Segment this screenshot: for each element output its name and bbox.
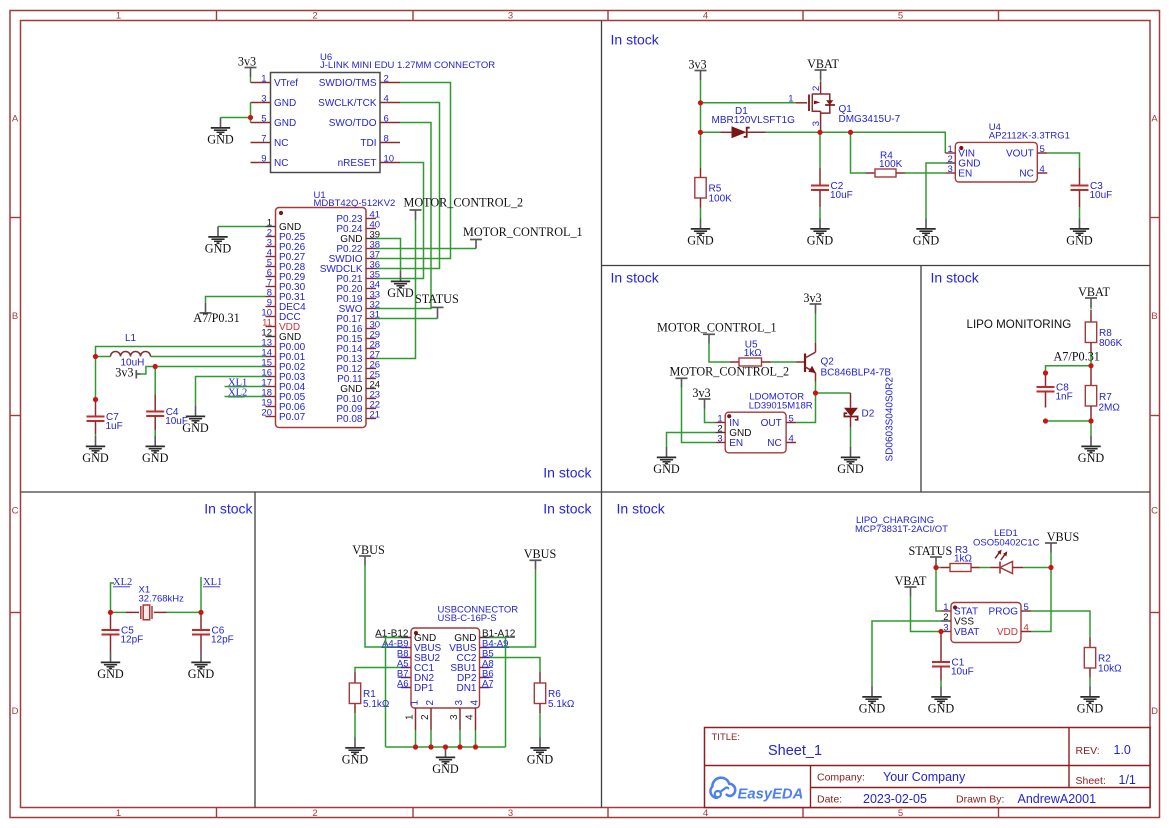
ground at U4 — [913, 219, 940, 248]
junction USB ground bus — [428, 744, 433, 749]
MCP73831 pin 5 PROG — [989, 602, 1031, 618]
wire LDO GND down — [667, 433, 716, 448]
svg-text:Drawn By:: Drawn By: — [956, 794, 1004, 806]
svg-text:1.0: 1.0 — [1114, 743, 1131, 757]
svg-text:5: 5 — [789, 414, 794, 425]
LDOMOTOR pin 4 NC — [767, 434, 796, 450]
svg-text:5.1kΩ: 5.1kΩ — [548, 699, 575, 710]
svg-text:1uF: 1uF — [106, 421, 123, 432]
junction VBAT C1 node — [938, 629, 943, 634]
svg-text:3v3: 3v3 — [688, 57, 706, 71]
svg-text:GND: GND — [82, 451, 109, 465]
svg-text:NC: NC — [274, 138, 288, 149]
wire nRESET net — [376, 163, 424, 279]
svg-text:DN1: DN1 — [456, 683, 476, 694]
svg-text:3: 3 — [717, 434, 722, 445]
junction C8 top — [1043, 370, 1048, 375]
junction R4 node — [848, 130, 853, 135]
svg-text:EasyEDA: EasyEDA — [738, 787, 804, 803]
ground at C5 — [97, 652, 124, 681]
svg-text:SWCLK/TCK: SWCLK/TCK — [318, 98, 377, 109]
svg-text:3v3: 3v3 — [692, 386, 710, 400]
resistor R3 — [941, 545, 980, 572]
power flag 3v3 at LDO — [692, 386, 710, 409]
wire XL2 down — [111, 583, 115, 612]
LED LED1 OSO50402C1C — [973, 528, 1040, 574]
svg-text:6: 6 — [384, 113, 389, 124]
U1 pin 6 P0.29 — [266, 268, 306, 284]
capacitor C3 — [1071, 168, 1113, 207]
svg-text:VBUS: VBUS — [524, 547, 557, 561]
U6 pin 6 SWO/TDO — [329, 113, 400, 129]
wire to D1 anode — [701, 131, 721, 133]
power flag VBAT monitoring — [1078, 285, 1110, 310]
svg-text:GND: GND — [1077, 702, 1104, 716]
svg-text:GND: GND — [432, 762, 459, 776]
U4 pin 5 VOUT — [1006, 144, 1047, 160]
wire XL1 down — [200, 577, 202, 612]
module U1 MDBT42Q-512KV2 box — [276, 190, 396, 428]
svg-text:4: 4 — [789, 434, 794, 445]
junction crystal right — [198, 610, 203, 615]
wire 3v3 to Q2 collector — [815, 314, 817, 344]
U1 pin 21 P0.08 — [336, 410, 380, 426]
net label XL2 — [228, 388, 247, 399]
net flag MOTOR_CONTROL_2 at U1 — [404, 195, 524, 219]
U6 pin 9 NC — [251, 153, 289, 169]
ground at LDO — [653, 447, 680, 476]
USB pin B6 DP2 — [457, 669, 494, 685]
svg-text:1/1: 1/1 — [1119, 773, 1136, 787]
junction Q2 emitter node — [813, 390, 818, 395]
svg-text:12pF: 12pF — [211, 635, 234, 646]
section divider vertical right — [920, 266, 922, 493]
wire C3 to ground — [1079, 207, 1081, 219]
junction VBUS node — [1048, 565, 1053, 570]
svg-text:PROG: PROG — [989, 607, 1019, 618]
svg-text:3: 3 — [943, 623, 948, 634]
svg-text:EN: EN — [958, 169, 972, 180]
svg-text:In stock: In stock — [204, 501, 253, 517]
svg-text:GND: GND — [1066, 234, 1093, 248]
text In stock — [611, 270, 660, 286]
svg-text:A7/P0.31: A7/P0.31 — [1054, 350, 1100, 364]
wire Q2 emitter down — [815, 382, 817, 394]
wire USB ground bus — [386, 746, 506, 748]
svg-text:In stock: In stock — [543, 465, 592, 481]
MCP73831 pin 3 VBAT — [941, 623, 979, 639]
U1 pin 17 P0.04 — [261, 378, 305, 394]
text In stock — [617, 501, 666, 517]
svg-text:2023-02-05: 2023-02-05 — [863, 792, 927, 806]
resistor U5 — [730, 339, 771, 366]
U1 pin 34 P0.20 — [336, 280, 380, 296]
net flag STATUS at U1 — [415, 292, 459, 319]
power flag 3v3 power section — [688, 57, 706, 80]
U1 pin 23 P0.10 — [336, 390, 380, 406]
ground at C3 — [1066, 219, 1093, 248]
connector U6 J-LINK box — [271, 52, 496, 173]
wire C8 bottom — [1045, 419, 1047, 421]
wire U1 pin15 P0.02 — [155, 366, 265, 368]
svg-text:GND: GND — [687, 234, 714, 248]
ground at U1 pin16 — [182, 406, 209, 435]
junction C2 node — [817, 130, 822, 135]
USB pin A8 SBU1 — [450, 659, 493, 675]
svg-text:D2: D2 — [862, 409, 875, 420]
capacitor C1 — [932, 632, 974, 681]
section divider vertical bottom left — [254, 492, 256, 808]
USB pin B7 DN2 — [397, 669, 435, 685]
ground at VSS — [859, 687, 886, 716]
junction 3v3 gate node — [698, 100, 703, 105]
USB pin A7 DN1 — [456, 679, 493, 695]
USB shell pin 4 — [465, 700, 481, 731]
wire rail — [820, 131, 851, 133]
U1 pin 4 P0.27 — [266, 248, 306, 264]
wire C2 to ground — [819, 207, 821, 219]
row ticks left — [10, 218, 21, 613]
U1 pin 30 P0.16 — [336, 320, 380, 336]
column numbers top — [116, 11, 903, 22]
wire R4 to U4 EN — [905, 172, 945, 174]
U1 pin 27 P0.13 — [336, 350, 380, 366]
svg-text:LIPO MONITORING: LIPO MONITORING — [967, 318, 1072, 331]
svg-text:GND: GND — [182, 421, 209, 435]
U1 pin 33 P0.19 — [336, 290, 380, 306]
svg-text:5: 5 — [1024, 602, 1029, 613]
svg-text:1: 1 — [116, 808, 121, 819]
wire R6 to ground — [539, 713, 541, 738]
U1 pin 40 P0.24 — [336, 220, 380, 236]
svg-text:D: D — [12, 706, 19, 717]
junction C7 top — [93, 397, 98, 402]
svg-text:21: 21 — [370, 410, 381, 421]
MCP73831 pin 2 VSS — [941, 612, 974, 628]
U1 pin 39 GND — [340, 230, 380, 246]
svg-text:A: A — [1151, 114, 1158, 125]
U1 pin 7 P0.30 — [266, 278, 306, 294]
wire MOTOR_CONTROL_1 to U5 — [709, 344, 730, 363]
resistor R7 2MOhm — [1085, 366, 1120, 420]
resistor R1 — [349, 672, 390, 713]
svg-text:4: 4 — [703, 808, 708, 819]
svg-text:10kΩ: 10kΩ — [1098, 663, 1122, 674]
svg-text:In stock: In stock — [931, 270, 980, 286]
junction divider node — [1088, 363, 1093, 368]
U1 pin 32 SWO — [339, 300, 380, 316]
svg-text:Q2: Q2 — [821, 357, 835, 368]
text LIPO MONITORING — [967, 318, 1072, 331]
resistor R8 — [1085, 310, 1122, 352]
power flag VBAT at Q1 — [807, 57, 839, 82]
row letters right — [1151, 114, 1158, 718]
power flag VBUS left — [352, 543, 385, 566]
svg-text:Your Company: Your Company — [883, 770, 966, 784]
svg-text:4: 4 — [384, 93, 389, 104]
svg-text:B: B — [12, 311, 18, 322]
U6 pin 7 NC — [251, 133, 289, 149]
svg-text:MDBT42Q-512KV2: MDBT42Q-512KV2 — [314, 198, 396, 209]
diode D1 MBR120VLSFT1G — [712, 106, 796, 138]
resistor R5 — [695, 168, 732, 208]
svg-text:3: 3 — [948, 164, 953, 175]
svg-text:Sheet_1: Sheet_1 — [768, 743, 822, 759]
row letters left — [12, 114, 19, 718]
wire bus to USB GND left — [386, 638, 402, 748]
svg-text:GND: GND — [97, 667, 124, 681]
wire 3v3 to Q1 gate — [701, 102, 797, 104]
text In stock — [611, 32, 660, 48]
svg-text:2: 2 — [425, 700, 436, 706]
wire VBUS down — [1050, 553, 1052, 568]
svg-text:P0.07: P0.07 — [279, 412, 306, 423]
svg-text:5: 5 — [261, 113, 266, 124]
ground at C1 — [928, 687, 955, 716]
svg-text:3v3: 3v3 — [803, 291, 821, 305]
svg-text:12pF: 12pF — [121, 635, 144, 646]
svg-text:VBAT: VBAT — [954, 627, 979, 638]
U1 pin 5 P0.28 — [266, 258, 306, 274]
wire U1 pin31 P0.17 STATUS — [376, 318, 438, 320]
svg-text:2: 2 — [943, 612, 948, 623]
svg-text:GND: GND — [205, 242, 232, 256]
wire U1 pin38 to MOTOR_CONTROL_1 — [376, 248, 476, 250]
section divider vertical center — [601, 21, 603, 808]
wire node to C8 — [1046, 366, 1092, 373]
svg-text:GND: GND — [207, 133, 234, 147]
svg-text:STATUS: STATUS — [415, 292, 459, 306]
svg-text:7: 7 — [261, 133, 266, 144]
svg-text:32.768kHz: 32.768kHz — [139, 593, 185, 604]
junction L1 node — [93, 354, 98, 359]
U1 pin 31 P0.17 — [336, 310, 380, 326]
inductor L1 10uH — [111, 333, 151, 369]
text In stock — [204, 501, 253, 517]
wire PROG to R2 — [1031, 611, 1090, 638]
svg-text:2: 2 — [384, 73, 389, 84]
svg-text:Sheet:: Sheet: — [1076, 775, 1106, 787]
wire VBAT to pin3 — [911, 597, 942, 632]
U1 pin 9 DEC4 — [266, 298, 307, 314]
wire SWCLK net — [376, 103, 440, 269]
svg-text:VBUS: VBUS — [352, 543, 385, 557]
junction USB ground bus — [413, 744, 418, 749]
net label XL2 crystal — [113, 577, 132, 588]
ground at C2 — [807, 219, 834, 248]
USB pin B4-A9 VBUS — [449, 639, 509, 655]
svg-text:100K: 100K — [709, 193, 733, 204]
ground at USB bus — [432, 747, 459, 776]
svg-text:1kΩ: 1kΩ — [954, 554, 973, 565]
wire shell pin4 down — [475, 730, 477, 747]
net label XL1 — [228, 377, 247, 388]
U1 pin 16 P0.03 — [261, 368, 305, 384]
U1 pin 1 GND — [266, 218, 302, 234]
svg-text:C: C — [12, 506, 19, 517]
wire Q1 drain to rail — [820, 131, 822, 133]
svg-text:3v3: 3v3 — [115, 366, 133, 380]
U1 pin 41 P0.23 — [336, 210, 380, 226]
svg-text:5: 5 — [898, 11, 903, 22]
wire STATUS to STAT pin — [936, 568, 941, 612]
wire shell pin2 down — [430, 730, 432, 747]
svg-text:DP1: DP1 — [414, 683, 434, 694]
charger IC MCP73831 box — [951, 603, 1021, 643]
U1 pin 28 P0.14 — [336, 340, 380, 356]
regulator LDOMOTOR LD39015M18R box — [725, 392, 813, 453]
svg-text:1: 1 — [405, 714, 416, 720]
U1 pin 19 P0.06 — [261, 398, 305, 414]
svg-text:4: 4 — [465, 714, 476, 720]
text LIPO_CHARGING label — [855, 515, 948, 535]
net label A7/P0.31 monitoring — [1054, 350, 1100, 364]
wire XL1 to U1 pin17 — [225, 386, 266, 388]
svg-text:100K: 100K — [879, 159, 903, 170]
wire U6 pin3 to pin5 — [250, 103, 252, 123]
wire VBUS to VDD — [1031, 568, 1051, 632]
capacitor C6 — [192, 613, 234, 653]
USB pin A5 CC1 — [397, 659, 435, 675]
USB pin B1-A12 GND — [454, 629, 516, 645]
wire R1 to ground — [354, 713, 356, 738]
svg-text:20: 20 — [261, 408, 272, 419]
MCP73831 pin 4 VDD — [997, 623, 1031, 639]
svg-text:STATUS: STATUS — [909, 544, 953, 558]
svg-text:3: 3 — [811, 121, 822, 126]
svg-text:VBAT: VBAT — [895, 574, 927, 588]
power flag VBUS right — [524, 547, 557, 570]
svg-text:GND: GND — [387, 286, 414, 300]
U1 pin 3 P0.26 — [266, 238, 306, 254]
svg-text:GND: GND — [142, 451, 169, 465]
wire shell pin1 down — [415, 730, 417, 747]
junction USB ground bus — [443, 744, 448, 749]
wire 3v3 down — [700, 80, 702, 103]
svg-text:MCP73831T-2ACI/OT: MCP73831T-2ACI/OT — [855, 524, 948, 535]
svg-text:GND: GND — [913, 234, 940, 248]
svg-text:GND: GND — [1078, 451, 1105, 465]
wire C8 to R7 bottom — [1046, 420, 1092, 422]
junction C8 bottom — [1043, 418, 1048, 423]
svg-text:2: 2 — [420, 714, 431, 720]
USB pin B5 CC2 — [456, 649, 493, 665]
U6 pin 10 nRESET — [338, 153, 400, 169]
column numbers bottom — [116, 808, 903, 819]
power flag 3v3 at C4 — [115, 366, 140, 380]
svg-text:BC846BLP4-7B: BC846BLP4-7B — [821, 368, 892, 379]
svg-text:MOTOR_CONTROL_1: MOTOR_CONTROL_1 — [657, 321, 777, 335]
svg-text:2: 2 — [811, 86, 822, 91]
wire crystal to XL1 node — [167, 611, 202, 613]
svg-text:1kΩ: 1kΩ — [744, 348, 763, 359]
capacitor C7 — [87, 400, 123, 435]
wire down to R5 — [700, 132, 702, 168]
U1 pin 15 P0.02 — [261, 358, 305, 374]
USB shell pin 3 — [449, 700, 465, 731]
svg-text:MOTOR_CONTROL_2: MOTOR_CONTROL_2 — [404, 195, 524, 209]
wire to 3v3 flag — [141, 367, 156, 375]
U1 pin 18 P0.05 — [261, 388, 305, 404]
svg-text:5: 5 — [898, 808, 903, 819]
svg-text:MOTOR_CONTROL_2: MOTOR_CONTROL_2 — [670, 365, 790, 379]
wire U1 pin1 GND — [218, 226, 266, 228]
power flag 3v3 at Q2 — [803, 291, 821, 314]
wire to ground monitoring — [1090, 421, 1092, 436]
ground at C6 — [188, 652, 215, 681]
wire R3 to LED — [979, 567, 991, 569]
crystal X1 32.768kHz — [126, 584, 184, 620]
wire inductor to U1 pin14 — [151, 356, 266, 358]
USB shell pin 1 — [405, 700, 421, 731]
svg-text:Company:: Company: — [817, 772, 865, 784]
svg-text:VBUS: VBUS — [1047, 530, 1080, 544]
U6 pin 3 GND — [251, 93, 297, 109]
U1 pin 24 GND — [340, 380, 380, 396]
svg-text:SD0603S040S0R2: SD0603S040S0R2 — [885, 377, 896, 462]
svg-text:A6: A6 — [397, 679, 409, 690]
svg-text:B: B — [1151, 311, 1157, 322]
svg-text:GND: GND — [274, 98, 296, 109]
net flag MOTOR_CONTROL_1 at U1 — [463, 225, 583, 249]
net flag MOTOR_CONTROL_1 motor section — [657, 321, 777, 344]
svg-text:1: 1 — [409, 700, 420, 706]
svg-text:J-LINK MINI EDU 1.27MM CONNECT: J-LINK MINI EDU 1.27MM CONNECTOR — [320, 60, 495, 71]
svg-text:GND: GND — [928, 702, 955, 716]
capacitor C8 — [1037, 373, 1073, 408]
U6 pin 5 GND — [251, 113, 297, 129]
svg-text:10uF: 10uF — [830, 190, 853, 201]
junction USB ground bus — [473, 744, 478, 749]
svg-text:P0.08: P0.08 — [336, 414, 363, 425]
svg-text:1: 1 — [788, 94, 793, 105]
net flag A7/P0.31 — [193, 303, 239, 325]
wire rail to U4 VIN — [851, 132, 946, 153]
connector USBCONNECTOR USB-C-16P-S box — [411, 605, 518, 709]
U1 pin 12 GND — [261, 328, 301, 344]
svg-text:4: 4 — [1024, 623, 1029, 634]
regulator U4 AP2112K-3.3TRG1 box — [955, 122, 1070, 182]
svg-text:10uF: 10uF — [951, 667, 974, 678]
wire SWO net — [376, 123, 431, 309]
resistor R4 — [866, 150, 905, 177]
junction U6 GND pins — [248, 115, 253, 120]
wire D1 cathode to rail — [766, 131, 821, 133]
wire MOTOR_CONTROL_2 to LDO EN — [682, 388, 716, 443]
svg-text:AndrewA2001: AndrewA2001 — [1018, 792, 1097, 806]
power flag VBAT charging — [895, 574, 927, 597]
svg-text:AP2112K-3.3TRG1: AP2112K-3.3TRG1 — [989, 131, 1070, 142]
wire XL2 to U1 pin18 — [225, 396, 266, 398]
svg-text:3: 3 — [261, 93, 266, 104]
wire to inductor L1 — [96, 356, 111, 358]
wire rail to R4 — [851, 132, 867, 173]
svg-text:LD39015M18R: LD39015M18R — [749, 401, 813, 412]
wire SWDIO net — [376, 83, 451, 259]
U1 pin 36 SWDCLK — [320, 260, 380, 276]
wire to crystal X1 — [111, 611, 127, 613]
U1 pin 10 DCC — [261, 308, 300, 324]
svg-text:TDI: TDI — [360, 138, 376, 149]
U1 pin 11 VDD — [262, 318, 300, 334]
wire R8 to divider node — [1090, 352, 1092, 366]
wire U5 to Q2 base — [771, 361, 797, 363]
text In stock — [543, 465, 592, 481]
column ticks top — [217, 11, 999, 21]
wire U1 pin8 P0.31 — [206, 297, 266, 304]
USB pin A6 DP1 — [397, 679, 434, 695]
svg-text:NC: NC — [1019, 169, 1033, 180]
